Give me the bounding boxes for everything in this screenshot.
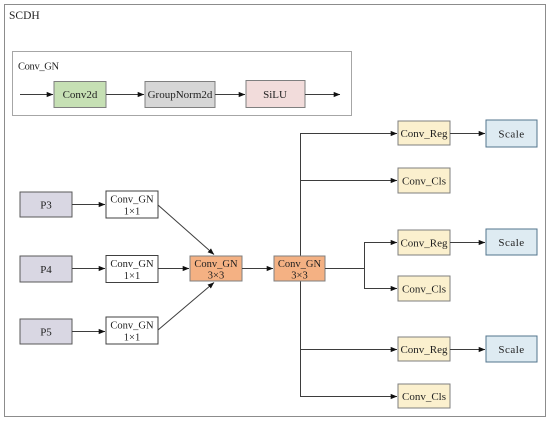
wire trunk up from second 3x3 [300,134,302,257]
block P3 [20,192,72,217]
block GroupNorm2d [145,82,215,108]
block Conv2d [54,82,106,108]
svg-text:Conv_GN: Conv_GN [110,321,154,332]
block P4 [20,256,72,282]
svg-text:SCDH: SCDH [9,10,40,22]
svg-text:Conv_Reg: Conv_Reg [400,128,448,140]
svg-text:P4: P4 [40,264,52,276]
block SiLU [246,81,305,108]
wire branch to Conv_Cls 1 [300,180,397,182]
block Conv_GN 3x3 first [190,256,242,282]
svg-text:Conv_GN: Conv_GN [110,195,154,206]
block Conv_GN 3x3 second [274,256,325,282]
svg-text:Scale: Scale [498,237,524,249]
wire branch to Conv_Cls 3 [300,396,397,398]
wire legend input arrow [20,94,53,96]
wire branch to Conv_Reg 2 [364,242,397,244]
wire diagonal 1x1 a to 3x3 [158,205,214,255]
svg-text:Conv2d: Conv2d [63,89,98,101]
svg-text:Scale: Scale [498,129,524,141]
wire P5 to Conv_GN 1x1 c [72,331,105,333]
block Conv_Reg 3 [398,337,450,361]
svg-text:Conv_Reg: Conv_Reg [400,344,448,356]
block Scale 1 [486,120,537,147]
svg-text:Conv_GN: Conv_GN [278,259,322,270]
block Conv_Cls 2 [398,276,450,301]
svg-text:3×3: 3×3 [291,271,307,282]
wire P4 to Conv_GN 1x1 b [72,268,105,270]
block Scale 3 [486,336,537,362]
svg-text:P3: P3 [40,200,52,212]
svg-text:Conv_Cls: Conv_Cls [402,391,446,403]
legend box Conv_GN [13,52,352,116]
wire Conv_Reg 2 to Scale 2 [450,242,485,244]
svg-text:Conv_GN: Conv_GN [18,62,59,73]
wire branch to Conv_Reg 3 [300,349,397,351]
block Conv_Reg 2 [398,230,450,255]
svg-text:Conv_Cls: Conv_Cls [402,176,446,188]
svg-text:Scale: Scale [498,344,524,356]
svg-text:Conv_Cls: Conv_Cls [402,284,446,296]
block Scale 2 [486,229,537,255]
svg-text:Conv_GN: Conv_GN [110,259,154,270]
wire diagonal 1x1 c to 3x3 [158,283,214,331]
wire 3x3 first to 3x3 second [242,268,273,270]
wire Conv_Reg 1 to Scale 1 [450,133,485,135]
svg-text:1×1: 1×1 [124,271,140,282]
wire legend output arrow [305,94,340,96]
svg-text:GroupNorm2d: GroupNorm2d [148,89,213,101]
svg-text:1×1: 1×1 [124,333,140,344]
block Conv_GN 1x1 b [106,256,158,283]
wire GroupNorm2d to SiLU [215,94,245,96]
block Conv_GN 1x1 a [106,191,158,218]
block Conv_Reg 1 [398,121,450,145]
block Conv_Cls 1 [398,168,450,193]
svg-text:P5: P5 [40,327,52,339]
svg-text:3×3: 3×3 [208,271,224,282]
wire branch to Conv_Reg 1 [300,133,397,135]
block Conv_Cls 3 [398,384,450,408]
svg-text:SiLU: SiLU [263,89,287,101]
block P5 [20,319,72,344]
wire elbow down [364,269,366,289]
wire 1x1 b to 3x3 [158,268,189,270]
wire Conv_Reg 3 to Scale 3 [450,349,485,351]
wire branch to Conv_Cls 2 [364,288,397,290]
svg-text:Conv_Reg: Conv_Reg [400,238,448,250]
wire trunk down from second 3x3 [300,281,302,397]
wire P3 to Conv_GN 1x1 a [72,204,105,206]
svg-text:1×1: 1×1 [124,207,140,218]
block Conv_GN 1x1 c [106,317,158,344]
svg-text:Conv_GN: Conv_GN [194,259,238,270]
wire Conv2d to GroupNorm2d [106,94,144,96]
wire second 3x3 output elbow [325,243,365,269]
